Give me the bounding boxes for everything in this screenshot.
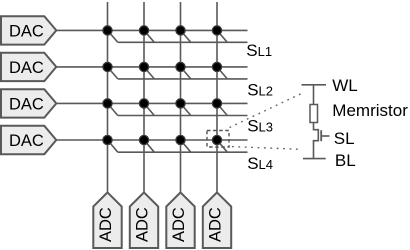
column wire C3 [180,2,182,192]
transistor gate lead [321,135,329,137]
ADC block 4 [203,192,231,248]
crosspoint dots row3 [103,99,112,108]
row 1 source line SL1 wire [118,41,248,43]
row 2 word line [56,66,247,68]
DAC block 2 [1,53,56,81]
DAC block 1 [1,16,56,44]
crosspoint dots row1 [103,26,112,35]
ADC block 1 [93,192,121,248]
ADC block 2 [130,192,158,248]
cell diagonals row3 [108,103,118,115]
crosspoint dots row2 [103,62,112,71]
svg-text:Memristor: Memristor [332,101,408,120]
svg-text:DAC: DAC [9,23,44,41]
svg-text:ADC: ADC [133,207,151,242]
svg-text:SL4: SL4 [247,154,273,173]
BL terminal line [303,158,326,160]
column wire C1 [107,2,109,192]
dotted leader to WL [230,94,302,128]
cell diagonals row1 [108,30,118,42]
detail cell: top stem [313,85,315,105]
ADC block 3 [166,192,194,248]
row 2 source line SL2 wire [118,78,248,80]
svg-text:SL: SL [334,129,355,148]
DAC block 3 [1,89,56,117]
column wire C2 [143,2,145,192]
transistor Q: drain jog, channel, source jog [314,130,319,159]
svg-text:DAC: DAC [9,59,44,77]
svg-text:ADC: ADC [206,207,224,242]
svg-text:SL2: SL2 [247,81,273,100]
cell diagonals row4 [108,140,118,152]
dashed selection box around cell (4,4) [207,131,229,148]
svg-text:BL: BL [335,151,356,170]
svg-text:ADC: ADC [170,207,188,242]
svg-text:ADC: ADC [97,207,115,242]
transistor gate bar [320,130,322,141]
stem below memristor [313,123,315,131]
row 3 word line [56,102,247,104]
row 4 word line [56,139,247,141]
DAC block 4 [1,126,56,154]
row 1 word line [56,29,247,31]
svg-text:SL1: SL1 [246,41,272,60]
svg-text:DAC: DAC [9,132,44,150]
memristor body [310,105,318,123]
crosspoint dots row4 [103,135,112,144]
svg-text:DAC: DAC [9,96,44,114]
detail cell: WL terminal line [302,84,327,86]
row 4 source line SL4 wire [118,151,248,153]
dotted leader to BL [232,147,300,150]
row 3 source line SL3 wire [118,115,248,117]
cell diagonals row2 [108,67,118,79]
column wire C4 [216,2,218,192]
svg-text:SL3: SL3 [247,117,273,136]
svg-text:WL: WL [332,76,358,95]
